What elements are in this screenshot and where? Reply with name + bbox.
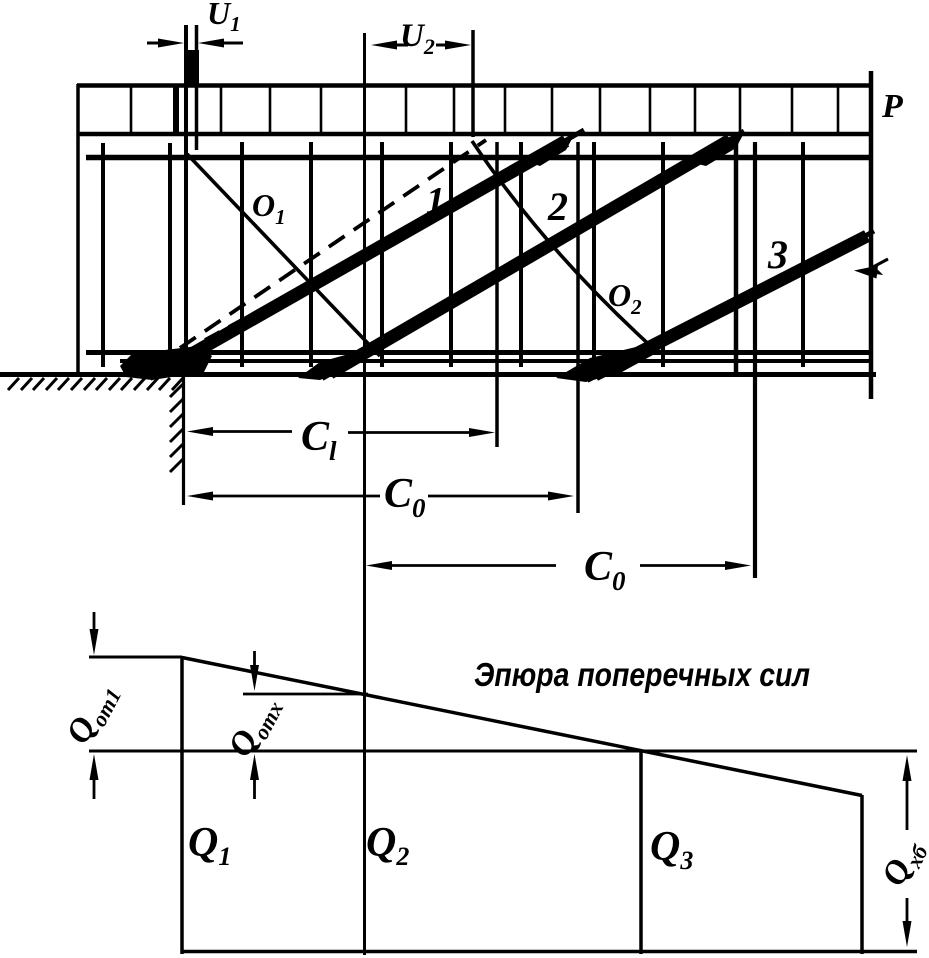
ink blob where crack 2 crosses top chord — [690, 133, 744, 166]
stirrup 1 at x=103 — [101, 143, 105, 367]
support wall face / dimension extension line — [182, 375, 185, 505]
C0 second dimension line left part — [392, 564, 556, 567]
Q_ot1 upper arrowhead (down) — [90, 629, 99, 655]
C0 second left arrowhead — [366, 561, 392, 570]
Q_otx dimension lower tail — [253, 776, 256, 799]
stirrup 5 at x=382 — [380, 142, 384, 367]
ink blob between U1 extension lines — [184, 50, 199, 86]
Q_ot1 dimension lower tail — [93, 776, 96, 799]
beam right edge — [869, 71, 874, 399]
beam left edge — [76, 84, 80, 374]
U1 right arrowhead — [198, 39, 224, 48]
stirrup 7 at x=521 — [519, 142, 523, 367]
C0 first left arrowhead — [187, 492, 213, 501]
thin crack O2 — [472, 141, 655, 350]
beam bottom / support surface line — [0, 372, 876, 377]
Q_ot1 dimension upper tail — [93, 612, 96, 633]
U2 right extension line — [471, 30, 475, 137]
svg-text:P: P — [881, 88, 903, 125]
shear diagram top-left level line — [89, 656, 182, 659]
long center extension line / Q1-Q2 divider — [363, 33, 366, 955]
stirrup 8 at x=594 — [592, 142, 596, 367]
U2 right arrowhead — [445, 41, 471, 50]
stirrup 9 at x=663 — [661, 142, 665, 367]
Q_otx lower arrowhead (up) — [250, 754, 259, 780]
bottom longitudinal bar (chord) — [86, 350, 870, 355]
support wall face hatching — [170, 384, 183, 472]
stirrup / C_l right extension line — [495, 142, 499, 447]
shear diagram sloping top line — [182, 658, 862, 796]
U1 dimension right tail — [224, 42, 243, 45]
stirrup 2 at x=170 — [168, 143, 172, 367]
bottom second bar line — [120, 359, 870, 363]
ink blob where crack 1 crosses top chord — [528, 135, 574, 166]
ink blob at support corner / crack 1 root — [120, 346, 212, 380]
C_l right arrowhead — [469, 428, 495, 437]
Q_otx dimension upper tail — [253, 651, 256, 669]
stirrup / C0 second right extension line — [753, 142, 757, 578]
svg-text:2: 2 — [547, 184, 568, 229]
dashed crack outline lower — [180, 140, 486, 348]
C0 second right arrowhead — [725, 561, 751, 570]
Q_otx upper arrowhead (down) — [250, 665, 259, 691]
Q_ot1 lower arrowhead (up) — [90, 754, 99, 780]
beam top flange upper edge — [77, 83, 872, 88]
svg-text:Эпюра поперечных сил: Эпюра поперечных сил — [474, 656, 810, 693]
stirrup 10 at x=736 — [734, 139, 739, 376]
Q_xb dimension lower tail — [906, 898, 909, 925]
stirrup / U1 extension line left — [184, 25, 188, 367]
ink blob at crack 3 root — [556, 346, 662, 382]
U1 left arrowhead — [158, 39, 184, 48]
top longitudinal bar (chord) — [86, 155, 871, 161]
crack 2 (thick inclined strut) — [330, 140, 730, 373]
beam top flange lower edge — [77, 132, 872, 137]
stirrup 3 at x=242 — [240, 142, 244, 367]
Q_xb upper arrowhead (up) — [903, 755, 912, 781]
Q_xb dimension upper tail — [906, 777, 909, 830]
C_l dimension line left part — [213, 430, 292, 433]
ink blob at crack 2 root — [298, 352, 374, 380]
U2 left arrowhead — [371, 41, 397, 50]
C_l dimension line right part — [348, 431, 469, 434]
crack 1 (thick inclined strut) — [160, 141, 566, 372]
stirrup 6 at x=451 — [449, 142, 453, 367]
shear diagram Q3 divider — [639, 750, 643, 954]
support hatching below bearing surface — [8, 378, 183, 390]
U1 extension line right — [195, 25, 199, 150]
shear diagram right vertical — [860, 795, 864, 954]
C0 second dimension line right part — [640, 564, 725, 567]
stirrup / C0 first right extension line — [576, 142, 580, 513]
svg-text:1: 1 — [426, 180, 445, 222]
dashed crack outline upper — [205, 272, 330, 340]
shear diagram left vertical Q1 ordinate — [180, 656, 184, 954]
U2 dimension right segment — [436, 44, 445, 47]
dark block separator near support — [173, 86, 179, 134]
svg-text:3: 3 — [767, 232, 788, 277]
stirrup 11 at x=803 — [801, 142, 805, 367]
shear diagram bottom line — [182, 950, 917, 954]
stirrup 4 at x=311 — [309, 142, 313, 367]
Q_otx level tick line — [243, 693, 368, 696]
U1 dimension left tail — [147, 42, 162, 45]
shear diagram zero axis — [89, 750, 917, 753]
C0 first dimension line left part — [213, 495, 380, 498]
top flange block separators — [130, 85, 133, 134]
C0 first dimension line right part — [428, 495, 548, 498]
break arrow on beam right edge — [863, 259, 888, 273]
C0 first right arrowhead — [548, 492, 574, 501]
C_l left arrowhead — [187, 427, 213, 436]
crack 3 (thick inclined strut) — [595, 236, 867, 375]
thin crack O1 — [187, 154, 380, 356]
Q_xb lower arrowhead (down) — [903, 921, 912, 947]
U2 dimension left segment — [397, 44, 408, 47]
